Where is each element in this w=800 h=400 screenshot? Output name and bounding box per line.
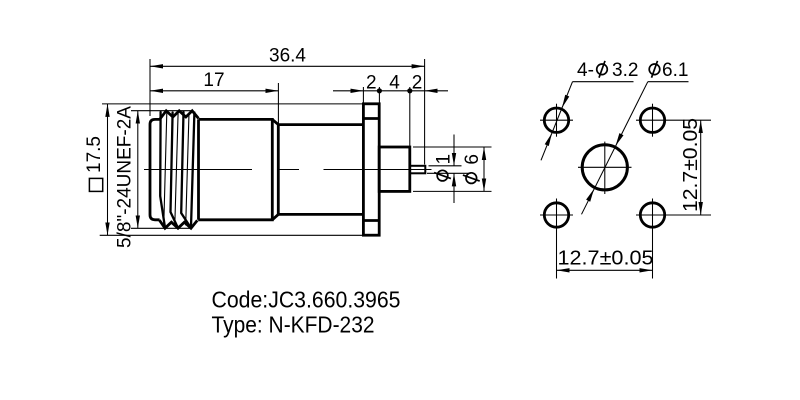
chamfer nut to body — [272, 119, 278, 124]
contact pin — [410, 166, 426, 174]
rear cylinder — [379, 147, 410, 191]
coupling nut outline — [150, 119, 272, 219]
svg-text:12.7±0.05: 12.7±0.05 — [558, 248, 654, 270]
mounting hole bottom-right — [636, 199, 711, 279]
svg-text:4: 4 — [389, 72, 400, 93]
dim square 17.5 — [84, 104, 365, 235]
thread hatch lines — [160, 112, 194, 228]
dim 36.4 — [150, 46, 425, 165]
svg-text:2: 2 — [412, 72, 423, 93]
body — [278, 125, 363, 215]
svg-text:5/8"-24UNEF-2A: 5/8"-24UNEF-2A — [115, 106, 136, 248]
thread crest zigzag top — [160, 111, 199, 119]
svg-text:36.4: 36.4 — [269, 46, 306, 67]
svg-text:4-: 4- — [577, 60, 594, 81]
svg-text:Code:JC3.660.3965: Code:JC3.660.3965 — [212, 287, 401, 313]
centerline of side view — [144, 169, 432, 171]
svg-text:12.7±0.05: 12.7±0.05 — [680, 118, 702, 212]
thread crest zigzag bottom — [159, 220, 197, 228]
svg-text:6: 6 — [462, 154, 483, 165]
dim chain 2 4 2 — [333, 72, 448, 147]
dim phi6 cylinder — [413, 147, 492, 191]
leader phi6.1 — [582, 60, 689, 214]
svg-text:17.5: 17.5 — [84, 136, 105, 173]
svg-text:2: 2 — [366, 72, 377, 93]
leader 4-phi3.2 — [541, 60, 638, 160]
dim 12.7 +/-0.05 horizontal — [557, 248, 654, 271]
dim 12.7 +/-0.05 vertical — [680, 118, 702, 215]
flange plate — [363, 104, 379, 235]
svg-text:1: 1 — [434, 154, 455, 165]
svg-text:Type: N-KFD-232: Type: N-KFD-232 — [212, 312, 375, 338]
svg-text:6.1: 6.1 — [662, 60, 688, 81]
dim 5/8"-24UNEF-2A — [115, 106, 193, 248]
svg-text:17: 17 — [203, 70, 224, 91]
svg-text:3.2: 3.2 — [612, 60, 638, 81]
mounting hole top-right — [636, 104, 711, 137]
mounting hole bottom-left — [540, 199, 573, 279]
flange face view: mounting hole top-left — [540, 104, 573, 137]
dim phi1 pin — [427, 135, 471, 204]
center hole phi6.1 — [578, 142, 632, 194]
dim 17 — [150, 70, 278, 125]
